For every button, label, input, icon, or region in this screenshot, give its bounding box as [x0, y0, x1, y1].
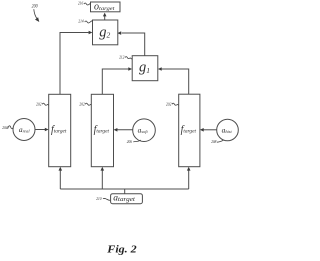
box a_target	[111, 194, 143, 204]
riser a_target bus to f_target left	[59, 170, 61, 189]
svg-text:212: 212	[119, 54, 125, 59]
arrowhead into f_target right from a_hist	[200, 128, 204, 132]
leader squiggle 214	[85, 21, 93, 23]
source a_soft circle	[133, 119, 156, 142]
bottom bus rail	[60, 188, 188, 190]
leader squiggle 202 left	[42, 103, 49, 105]
leader squiggle 210	[103, 198, 110, 200]
wire f_target middle to g1	[102, 69, 129, 94]
svg-text:200: 200	[32, 5, 38, 10]
riser a_target bus to f_target middle	[101, 170, 103, 189]
svg-text:214: 214	[78, 19, 84, 24]
leader arrow 200	[34, 9, 38, 19]
wire g1 to g2	[122, 33, 145, 56]
arrowhead bus into f_target left bottom	[59, 167, 63, 171]
riser a_target bus to f_target right	[188, 170, 190, 189]
source a_hist circle	[217, 119, 239, 141]
arrowhead into g1 left	[128, 67, 132, 71]
wire a_hist to f_target right	[203, 129, 217, 131]
leader squiggle 212	[125, 57, 132, 60]
block g1	[132, 56, 158, 81]
wire f_target right to g1	[161, 69, 189, 94]
leader squiggle 204	[8, 126, 14, 129]
svg-text:208: 208	[211, 139, 217, 144]
svg-text:206: 206	[127, 139, 133, 144]
arrowhead of leader 200	[35, 17, 39, 22]
wire a_soft to f_target middle	[117, 129, 133, 131]
wire f_target left to g2	[60, 33, 89, 95]
leader squiggle 202 right	[172, 103, 179, 105]
block f_target middle	[91, 94, 113, 166]
arrowhead into g2 right	[117, 31, 121, 35]
arrowhead into o_target	[103, 13, 107, 17]
source a_real circle	[13, 119, 35, 141]
arrowhead bus into f_target middle bottom	[101, 167, 105, 171]
block f_target left	[49, 94, 71, 166]
arrowhead into g2 left	[89, 31, 93, 35]
svg-text:Fig. 2: Fig. 2	[106, 243, 137, 255]
svg-text:202: 202	[36, 101, 42, 106]
leader squiggle 216	[84, 3, 91, 5]
wire g2 to o_target	[104, 14, 106, 20]
arrowhead into f_target middle from a_soft	[114, 128, 118, 132]
svg-text:204: 204	[2, 125, 8, 130]
arrowhead into g1 right	[158, 67, 162, 71]
svg-text:216: 216	[78, 1, 84, 6]
wire a_real to f_target left	[35, 129, 45, 131]
leader squiggle 208	[217, 140, 224, 142]
block f_target right	[179, 94, 200, 167]
arrowhead bus into f_target right bottom	[187, 167, 191, 171]
svg-text:202: 202	[79, 101, 85, 106]
leader squiggle 202 middle	[85, 103, 91, 105]
leader squiggle 206	[133, 140, 140, 142]
box o_target	[91, 2, 121, 12]
stub a_target box to bus	[124, 189, 126, 194]
arrowhead into f_target left from a_real	[45, 128, 49, 132]
svg-text:210: 210	[96, 196, 102, 201]
svg-text:202: 202	[166, 101, 172, 106]
block g2	[93, 20, 118, 45]
